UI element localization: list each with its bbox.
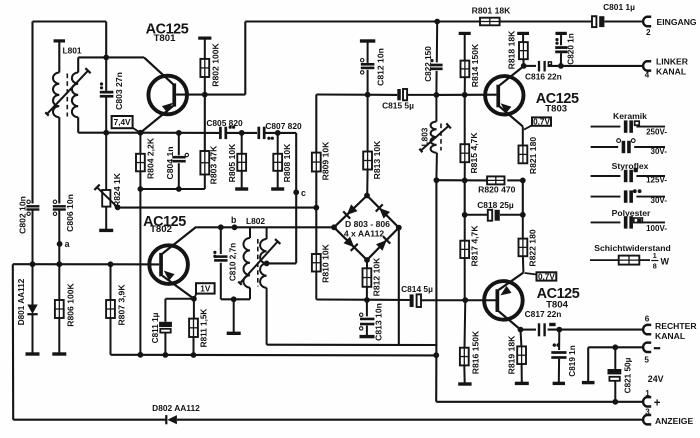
svg-text:Styroflex: Styroflex [612, 161, 649, 171]
wire R801 to C801 [500, 20, 592, 22]
svg-text:Keramik: Keramik [613, 111, 647, 121]
label R807 3,9K [117, 284, 127, 326]
resistor R813 10K [363, 95, 372, 196]
label 24V [648, 374, 664, 384]
node rail A junctions [138, 352, 197, 358]
svg-text:C819 1n: C819 1n [568, 345, 577, 376]
wire transformer bottom rail [267, 344, 437, 346]
resistor R810 10K [312, 254, 321, 300]
connector plus [643, 389, 661, 409]
svg-text:C804 1n: C804 1n [165, 147, 175, 180]
label L801 [63, 46, 82, 56]
svg-text:2: 2 [646, 28, 651, 37]
label C814 5µ [401, 284, 433, 294]
wire C805-C807 [227, 132, 257, 134]
svg-text:R816 150K: R816 150K [470, 330, 480, 374]
voltage box 7,4V [112, 116, 141, 133]
label C816 22n [525, 72, 562, 82]
wire column to base-cross [435, 180, 437, 345]
node T802 emitter junction [191, 296, 197, 302]
legend styroflex title [612, 161, 649, 171]
label R821 180 [528, 137, 538, 174]
svg-text:R820 470: R820 470 [478, 185, 515, 195]
resistor R808 10K [273, 133, 282, 189]
resistor R806 100K [52, 264, 66, 355]
node C821 minus junction [612, 344, 618, 350]
wire minus stub [588, 346, 642, 348]
label R809 10K [321, 141, 331, 180]
wire up to top rail [244, 22, 246, 95]
node T803 collector junction [521, 63, 527, 69]
resistor R803 47K [200, 151, 209, 189]
svg-text:D802 AA112: D802 AA112 [152, 403, 200, 413]
capacitor C819 1n [551, 330, 566, 386]
svg-text:100V-: 100V- [646, 224, 667, 233]
inductor L803 [419, 95, 450, 180]
label C817 22n [525, 309, 562, 319]
svg-text:5: 5 [644, 356, 649, 365]
label R816 150K [470, 330, 480, 374]
ground stub C810 [227, 299, 241, 335]
label R802 100K [211, 42, 221, 86]
wire column to plus corner [435, 345, 437, 402]
label R817 4,7K [470, 225, 480, 267]
voltage box 1V [194, 283, 215, 299]
label C813 10n [374, 303, 384, 341]
label C811 1µ [151, 312, 160, 343]
node C820 junction [558, 63, 564, 69]
svg-text:C803 27n: C803 27n [114, 72, 124, 110]
wire top rail to R801 [245, 20, 480, 22]
svg-text:1: 1 [645, 389, 650, 398]
svg-text:4 x AA112: 4 x AA112 [344, 229, 385, 239]
capacitor C818 25µ [462, 210, 526, 221]
svg-text:D801 AA112: D801 AA112 [17, 278, 26, 325]
capacitor C821 50µ [608, 347, 622, 402]
svg-text:R804 2,2K: R804 2,2K [146, 137, 156, 179]
svg-text:4: 4 [645, 70, 650, 79]
svg-text:250V-: 250V- [646, 127, 667, 136]
capacitor C810 2,7n [213, 227, 227, 299]
svg-text:R818 18K: R818 18K [507, 30, 517, 69]
label L802 [246, 216, 265, 226]
label C822 150 [424, 46, 433, 82]
wire tap to node-c column [267, 262, 297, 264]
resistor R822 180 [519, 215, 528, 273]
label R820 470 [478, 185, 515, 195]
resistor R811 1,5K [189, 299, 198, 355]
connector minus [643, 343, 660, 365]
svg-text:R810 10K: R810 10K [321, 243, 331, 282]
resistor R816 150K [458, 300, 471, 386]
trimmer R824 1K [94, 133, 120, 229]
svg-text:a: a [65, 239, 70, 249]
capacitor C801 1µ [592, 16, 642, 27]
label C815 5µ [382, 100, 414, 110]
label R812 10K [372, 257, 382, 296]
svg-text:R808 10K: R808 10K [282, 143, 292, 182]
node rail-A junction [433, 352, 439, 358]
svg-text:Schichtwiderstand: Schichtwiderstand [594, 243, 670, 253]
svg-text:R806 100K: R806 100K [66, 282, 76, 326]
label D802 AA112 [152, 403, 200, 413]
svg-text:C812 10n: C812 10n [376, 48, 386, 86]
label C805 820 [206, 118, 243, 128]
svg-text:C815 5µ: C815 5µ [382, 100, 414, 110]
svg-text:C805 820: C805 820 [206, 118, 243, 128]
transformer L802 [238, 227, 280, 344]
wire emitter rail y=133 [106, 132, 140, 134]
label C807 820 [265, 121, 302, 131]
resistor R801 18K [480, 18, 500, 26]
svg-text:R802 100K: R802 100K [211, 42, 221, 86]
svg-text:R814 150K: R814 150K [470, 43, 480, 87]
ground bar R805 [235, 187, 248, 190]
label R805 10K [227, 143, 237, 182]
wire anzeige rail [13, 419, 642, 421]
wire left frame [12, 264, 14, 420]
label D803-806 [344, 219, 390, 239]
voltage box 0,7V T803 [524, 117, 551, 129]
wire R810 column [315, 208, 317, 254]
resistor R809 10K body [312, 153, 321, 172]
svg-text:C813 10n: C813 10n [374, 303, 384, 341]
svg-text:R822 180: R822 180 [527, 229, 537, 266]
diode ring D803-806 4x AA112 [331, 193, 402, 263]
legend keramik 250V cap [591, 120, 668, 136]
svg-text:C820 1n: C820 1n [567, 33, 576, 64]
label R811 1,5K [200, 309, 209, 348]
capacitor C816 22n [538, 61, 552, 72]
label C803 27n [114, 72, 124, 110]
node R820 wire junction [434, 177, 440, 183]
wire rail A (common) [111, 354, 437, 357]
svg-text:125V-: 125V- [646, 176, 667, 185]
svg-text:C821 50µ: C821 50µ [624, 357, 633, 393]
svg-text:R809 10K: R809 10K [321, 141, 331, 180]
capacitor C804 1n [172, 133, 188, 189]
svg-text:C807 820: C807 820 [265, 121, 302, 131]
label C820 1n [567, 33, 576, 64]
legend styroflex 30V cap [591, 189, 668, 205]
svg-text:T802: T802 [150, 224, 172, 235]
svg-text:KANAL: KANAL [655, 331, 685, 341]
voltage box 0,7V T804 [525, 272, 557, 281]
node top rail junction [434, 19, 440, 25]
wire node-c column [295, 133, 297, 264]
wire T803 base [436, 94, 496, 96]
diode D801 AA112 [26, 264, 40, 355]
ground bar R824 [99, 229, 113, 232]
label C802 10n [18, 196, 28, 234]
resistor R821 180 [519, 146, 528, 164]
resistor R817 4,7K [460, 215, 469, 300]
svg-text:R801 18K: R801 18K [472, 5, 511, 15]
label AC125 T801 [146, 22, 189, 44]
node C810 top junction [218, 224, 224, 230]
svg-text:C810 2,7n: C810 2,7n [229, 243, 238, 281]
legend keramik title [613, 111, 647, 121]
wire base column down to R803 [204, 95, 206, 151]
label C819 1n [568, 345, 577, 376]
svg-text:C802 10n: C802 10n [18, 196, 28, 234]
wire T802 base [13, 263, 159, 265]
label R801 18K [472, 5, 511, 15]
svg-text:R821 180: R821 180 [528, 137, 538, 174]
svg-text:C806 10n: C806 10n [65, 194, 75, 232]
node junction C803/R824 on emitter rail [103, 130, 109, 136]
svg-text:0,7V: 0,7V [538, 272, 555, 281]
svg-text:W: W [661, 256, 670, 266]
capacitor C812 10n [360, 39, 375, 94]
capacitor C817 22n [538, 323, 556, 337]
legend styroflex 125V cap [591, 168, 668, 185]
resistor R805 10K [237, 133, 246, 189]
label C810 2,7n [229, 243, 238, 281]
label R806 100K [66, 282, 76, 326]
wire C803 column upper [105, 22, 107, 90]
label C818 25µ [477, 200, 514, 210]
transistor T804 [484, 273, 523, 330]
capacitor C814 5µ [410, 294, 496, 307]
svg-text:EINGANG: EINGANG [657, 17, 697, 27]
svg-text:R807 3,9K: R807 3,9K [117, 284, 127, 326]
wire left column x=32 top segment [31, 22, 33, 204]
node R812 bottom junction [364, 297, 370, 303]
svg-text:c: c [301, 188, 306, 198]
label D801 AA112 [17, 278, 26, 325]
terminal bar above L801 [54, 39, 66, 72]
svg-text:R813 10K: R813 10K [372, 140, 382, 179]
wire rechter kanal [521, 329, 643, 331]
diode D802 AA112 [166, 415, 177, 424]
svg-text:L801: L801 [63, 46, 82, 56]
svg-text:8: 8 [653, 262, 657, 271]
resistor R804 2,2K [136, 133, 145, 355]
label R815 4,7K [469, 132, 479, 174]
connector anzeige [643, 408, 693, 426]
connector rechter kanal [643, 314, 697, 341]
svg-text:3: 3 [645, 408, 650, 417]
node base junctions [30, 261, 114, 267]
label R813 10K [372, 140, 382, 179]
svg-text:L802: L802 [246, 216, 265, 226]
svg-text:+: + [654, 398, 661, 410]
svg-text:C822 150: C822 150 [424, 46, 433, 82]
node C821 plus junction [612, 399, 618, 405]
wire b net [196, 226, 334, 228]
svg-text:R824 1K: R824 1K [112, 172, 122, 207]
wire L801 right winding bottom lead [78, 117, 106, 132]
svg-text:1: 1 [653, 251, 657, 260]
wire top-left rail [33, 20, 107, 22]
svg-text:C818 25µ: C818 25µ [477, 200, 514, 210]
capacitor C807 820 [257, 127, 273, 140]
svg-text:C814 5µ: C814 5µ [401, 284, 433, 294]
svg-text:C817 22n: C817 22n [525, 309, 562, 319]
inductor L801 [45, 68, 90, 117]
svg-text:L803: L803 [421, 127, 430, 146]
svg-text:D 803 - 806: D 803 - 806 [345, 219, 390, 229]
node T801 emitter junction [138, 130, 144, 136]
capacitor C802 10n [26, 200, 39, 264]
label R808 10K [282, 143, 292, 182]
label R819 18K [507, 335, 517, 374]
wire R820 row [436, 179, 522, 181]
node L802 tap [264, 261, 270, 267]
label R822 180 [527, 229, 537, 266]
wire plus rail [436, 401, 642, 403]
label R804 2,2K [146, 137, 156, 179]
capacitor C805 820 [219, 126, 235, 139]
transistor T803 [485, 66, 524, 145]
node R815 bottom junction [462, 178, 468, 184]
capacitor C813 10n [360, 300, 375, 338]
node R814 base junction [462, 92, 468, 98]
node junction L801-top wire [103, 55, 109, 61]
label C801 1µ [603, 2, 635, 12]
node R802 base junction [202, 92, 208, 98]
label R810 10K [321, 243, 331, 282]
svg-text:7,4V: 7,4V [114, 118, 131, 127]
resistor R812 10K [363, 260, 372, 300]
wire R824 wiper to R809 column [118, 207, 317, 209]
label AC125 T802 [143, 214, 186, 235]
label C821 50µ [624, 357, 633, 393]
connector eingang [643, 17, 697, 37]
label R818 18K [507, 30, 517, 69]
node C804 rail junction [176, 130, 182, 136]
svg-text:R803 47K: R803 47K [209, 145, 219, 184]
svg-text:RECHTER: RECHTER [655, 321, 697, 331]
wire R815-C818 segment [464, 180, 466, 214]
wire bridge right corner drop [398, 228, 400, 345]
label C812 10n [376, 48, 386, 86]
node R816 base junction [462, 297, 468, 303]
node R821 bottom junction [520, 178, 526, 184]
svg-text:C816 22n: C816 22n [525, 72, 562, 82]
legend polyester 100V cap [591, 216, 668, 233]
label AC125 T804 [537, 286, 580, 310]
resistor R802 100K [198, 37, 211, 95]
transistor T802 [149, 227, 196, 299]
wire minus ground drop [582, 347, 595, 384]
wire R803/C804 bottom link [138, 186, 205, 192]
transistor T801 [140, 57, 187, 132]
legend schichtwiderstand [590, 243, 671, 271]
svg-text:C811 1µ: C811 1µ [151, 312, 160, 343]
svg-text:R819 18K: R819 18K [507, 335, 517, 374]
svg-text:T803: T803 [545, 103, 567, 114]
svg-text:6: 6 [645, 314, 650, 323]
resistor R820 470 [487, 176, 504, 184]
capacitor C806 10n [53, 200, 66, 264]
node R808 junction [275, 130, 281, 136]
svg-text:C801 1µ: C801 1µ [603, 2, 635, 12]
svg-text:R812 10K: R812 10K [372, 257, 382, 296]
capacitor C820 1n [555, 32, 567, 66]
svg-text:R817 4,7K: R817 4,7K [470, 225, 480, 267]
svg-text:ANZEIGE: ANZEIGE [655, 416, 693, 426]
label R803 47K [209, 145, 219, 184]
capacitor C803 27n [100, 82, 114, 132]
capacitor C822 150 [430, 22, 442, 95]
connector linker kanal [643, 57, 689, 80]
label L803 [421, 127, 430, 146]
svg-text:R805 10K: R805 10K [227, 143, 237, 182]
svg-text:1V: 1V [200, 284, 211, 293]
svg-text:KANAL: KANAL [656, 67, 686, 77]
legend polyester title [612, 208, 651, 218]
wire linker kanal [524, 65, 642, 67]
label R824 1K [112, 172, 122, 207]
wire collector T801 to tank [106, 56, 144, 58]
svg-text:LINKER: LINKER [656, 57, 689, 67]
svg-text:30V-: 30V- [651, 147, 668, 156]
resistor R818 18K [517, 32, 529, 66]
node T804 collector junction [518, 327, 524, 333]
node c [293, 188, 306, 198]
node b [231, 215, 237, 230]
node R824-wire junction [313, 205, 319, 211]
svg-text:0,7V: 0,7V [533, 118, 550, 127]
resistor R819 18K [515, 330, 529, 386]
wire R809 column top corner [315, 95, 317, 208]
svg-text:T801: T801 [154, 33, 177, 44]
wire C810/primary bottom [221, 296, 250, 302]
ground bar R808 [271, 187, 284, 190]
svg-text:30V-: 30V- [651, 196, 668, 205]
label C804 1n [165, 147, 175, 180]
resistor R807 3,9K [106, 264, 115, 355]
node a [57, 239, 70, 249]
label R814 150K [470, 43, 480, 87]
label AC125 T803 [536, 91, 579, 114]
svg-text:b: b [231, 215, 237, 225]
wire C807 to corner [265, 132, 296, 134]
capacitor C815 5µ [397, 89, 436, 100]
wire R821-C818 segment [522, 180, 524, 214]
resistor R814 150K [459, 32, 471, 95]
resistor R815 4,7K [460, 95, 469, 181]
wire T801 base [176, 94, 245, 96]
wire base net T804 [316, 298, 409, 301]
wire L801 left winding bottom to C806 [58, 117, 60, 203]
node C815 wire junction [434, 92, 440, 98]
capacitor C811 1u [159, 299, 194, 355]
wire signal y=95 to C815 [316, 93, 397, 96]
svg-text:R815 4,7K: R815 4,7K [469, 132, 479, 174]
node C819 junction [556, 327, 562, 333]
svg-text:R811 1,5K: R811 1,5K [200, 309, 209, 348]
wire emitter rail to C805 [140, 132, 219, 134]
wire L801 right winding top lead [77, 57, 79, 72]
label C806 10n [65, 194, 75, 232]
node C812 junction [365, 92, 371, 98]
legend keramik 30V cap [591, 139, 668, 156]
svg-text:24V: 24V [648, 374, 664, 384]
node R805 junction [239, 130, 245, 136]
wire y=57 L801 top link [78, 56, 106, 58]
